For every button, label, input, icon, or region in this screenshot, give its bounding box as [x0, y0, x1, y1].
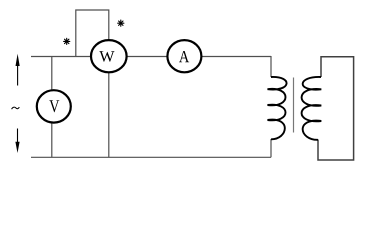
transformer core [293, 78, 295, 133]
polarity asterisk left [64, 38, 70, 44]
wire top main [31, 56, 271, 58]
ammeter A [167, 40, 201, 72]
source arrow down [15, 129, 19, 154]
transformer primary winding L1 [268, 77, 287, 139]
wattmeter W [91, 40, 127, 72]
voltmeter V [37, 90, 71, 122]
transformer secondary winding L2 [302, 77, 322, 140]
source tilde ~ [12, 107, 20, 109]
wire wattmeter voltage-coil loop [76, 10, 109, 57]
wire bottom main [31, 156, 271, 158]
wire primary down-lead [270, 56, 272, 77]
source arrow up [16, 54, 20, 86]
wire wattmeter bottom branch [108, 57, 110, 157]
wire voltmeter branch [51, 57, 53, 158]
polarity asterisk right [118, 20, 124, 26]
wire secondary loop [318, 57, 354, 160]
wire primary bottom lead [270, 139, 272, 157]
